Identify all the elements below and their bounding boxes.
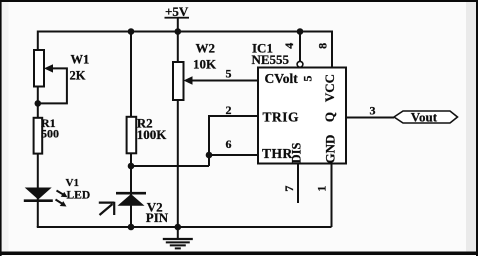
node W1 wiper junction [35,100,42,107]
node R2 bottom [128,163,135,170]
svg-text:5: 5 [301,76,315,82]
svg-text:W1: W1 [71,53,90,67]
wire pin2 TRIG [209,115,258,117]
svg-text:THR: THR [262,146,293,161]
svg-text:100K: 100K [137,127,168,142]
node R2 top [128,28,135,35]
resistor R1 [34,116,59,154]
ground [163,239,193,248]
svg-text:Vout: Vout [411,109,438,124]
wire TRIG-THR vertical [208,115,210,166]
svg-text:3: 3 [370,103,376,117]
svg-text:NE555: NE555 [252,52,290,67]
svg-text:VCC: VCC [322,74,337,102]
wire pin5 CVolt [192,80,259,82]
svg-text:CVolt: CVolt [265,71,299,86]
wire bottom rail [37,226,332,228]
svg-text:4: 4 [282,43,296,49]
node Vout flag [394,109,458,124]
node V2 bottom [128,224,135,231]
photodiode V2 PIN [99,193,169,225]
svg-text:5: 5 [226,67,232,81]
svg-text:7: 7 [282,186,296,192]
pin 4 reset bubble [297,61,303,67]
svg-text:6: 6 [226,137,232,151]
potentiometer W1 [34,50,89,87]
svg-text:500: 500 [41,127,59,141]
wire pin4 [299,32,301,62]
node +5V rail [175,28,182,35]
wire R2 column [130,32,132,228]
svg-text:Q: Q [322,112,337,122]
wire +5V stem [177,18,179,32]
svg-text:10K: 10K [193,57,217,72]
wire W1 wiper loop [39,68,67,103]
wire R2 bottom branch [131,165,209,167]
wire pin8 [331,31,333,68]
resistor R2 [127,116,168,154]
svg-text:GND: GND [323,135,338,164]
svg-text:8: 8 [316,43,330,49]
wire pin3 Q output [346,117,394,119]
wire top rail +5V [38,31,332,33]
node ground junction [175,224,182,231]
svg-text:2K: 2K [70,69,86,83]
wire pin6 THR [209,154,258,156]
wire pin1 GND [331,164,333,228]
svg-text:DIS: DIS [290,143,304,164]
svg-text:1: 1 [315,186,329,192]
timer IC U1 IC1 NE555 box [252,41,347,164]
svg-text:+5V: +5V [165,4,189,19]
svg-text:2: 2 [226,103,232,117]
LED V1 [24,177,90,207]
svg-text:V1: V1 [66,177,79,189]
svg-text:PIN: PIN [146,210,169,225]
wire ground stem [177,227,179,239]
svg-text:LED: LED [67,190,91,202]
wire pin7 DIS stub [297,164,299,204]
wire left column [37,31,39,228]
node THR junction [206,152,213,159]
power +5V [165,4,190,19]
potentiometer W2 [173,41,217,101]
svg-text:TRIG: TRIG [263,110,300,125]
node pin4 rail [297,28,304,35]
svg-text:W2: W2 [196,41,216,56]
wire W2 column [177,32,179,228]
